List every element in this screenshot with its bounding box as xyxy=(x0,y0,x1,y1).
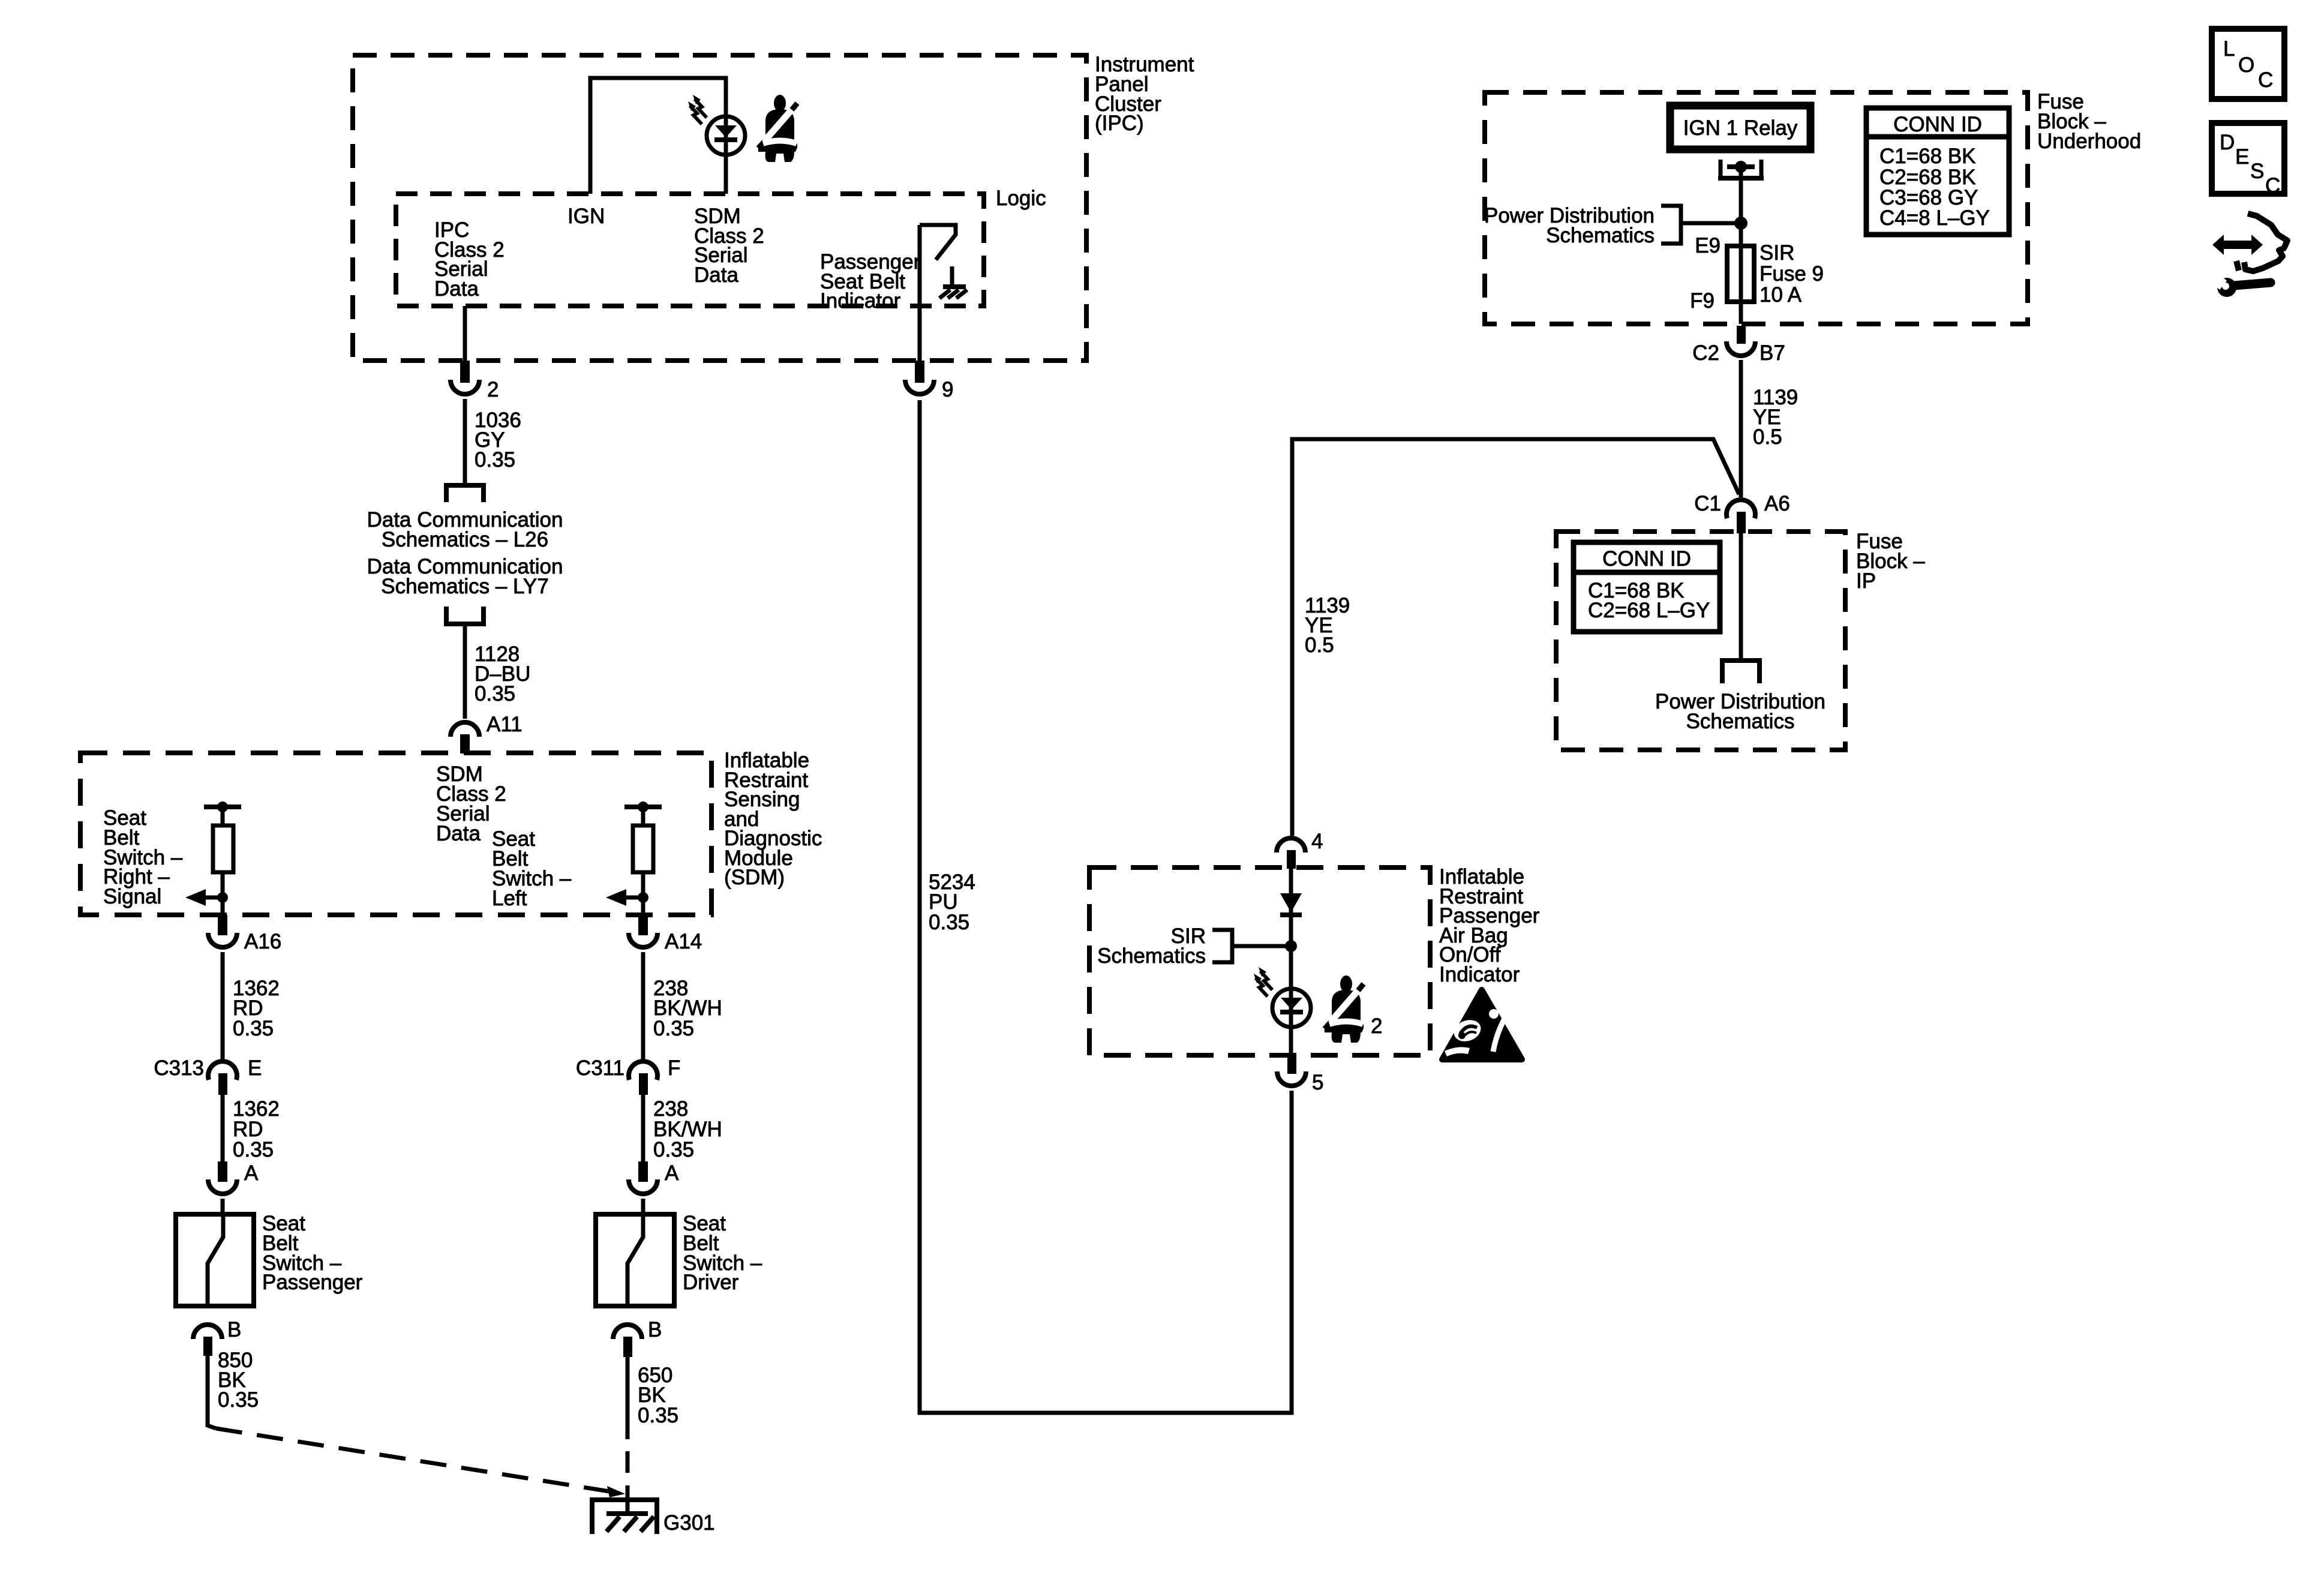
ground symbol inside Logic box xyxy=(950,266,954,287)
off-page fork to Power Distribution Schematics (underhood) xyxy=(1681,221,1741,226)
svg-text:E: E xyxy=(2235,145,2249,169)
off-page fork to SIR Schematics xyxy=(1212,930,1232,962)
box: Inflatable Restraint Passenger Air Bag On/Off Indicator dashed outline xyxy=(1089,867,1430,1055)
svg-text:Passenger: Passenger xyxy=(262,1271,363,1294)
svg-text:A11: A11 xyxy=(487,713,523,736)
LED cathode bar xyxy=(714,137,737,142)
svg-text:A: A xyxy=(665,1161,679,1185)
switch blade (driver) xyxy=(627,1214,643,1306)
LED diode triangle xyxy=(1281,998,1302,1010)
svg-text:SIR: SIR xyxy=(1759,241,1794,265)
box: Fuse Block - IP dashed outline xyxy=(1556,532,1845,750)
svg-text:CONN ID: CONN ID xyxy=(1893,113,1982,136)
svg-text:Driver: Driver xyxy=(683,1271,739,1294)
svg-text:A16: A16 xyxy=(244,930,281,953)
connector pin 5 of indicator xyxy=(1287,1055,1296,1074)
node: junction on indicator wire xyxy=(1285,940,1297,952)
svg-text:C1=68 BK: C1=68 BK xyxy=(1879,145,1976,168)
box: Seat Belt Switch - Passenger xyxy=(176,1214,254,1306)
connector A16 xyxy=(218,915,227,935)
wire 1036 GY 0.35 xyxy=(463,399,467,485)
svg-text:0.35: 0.35 xyxy=(653,1138,694,1161)
node: junction with signal arrow (right) xyxy=(217,892,228,903)
svg-text:C: C xyxy=(2265,174,2280,197)
svg-text:A: A xyxy=(244,1161,259,1185)
wire to resistor xyxy=(641,807,645,825)
pin 9 connector of IPC xyxy=(915,361,924,383)
svg-text:0.35: 0.35 xyxy=(929,911,969,934)
svg-text:Data: Data xyxy=(694,263,738,287)
wire 5234 PU 0.35 from pin 9 down, across and up to indicator pin 5 xyxy=(920,400,1292,1413)
svg-text:A14: A14 xyxy=(665,930,702,953)
box: Inflatable Restraint Sensing and Diagnostic Module (SDM) dashed outline xyxy=(80,753,711,915)
connector C313 cavity E xyxy=(208,1061,237,1080)
LED lamp: passenger air bag indicator bulb xyxy=(1272,989,1311,1027)
wire 650 BK 0.35 xyxy=(626,1357,630,1439)
wire 238 BK/WH 0.35 (upper) xyxy=(641,952,645,1059)
LED diode triangle xyxy=(715,125,737,137)
resistor (left switch sense) xyxy=(633,825,653,872)
wire 1362 RD 0.35 (upper) xyxy=(221,952,225,1059)
svg-text:B7: B7 xyxy=(1759,341,1785,365)
box: Instrument Panel Cluster (IPC) dashed outline xyxy=(353,55,1086,361)
pin 2 connector of IPC xyxy=(460,361,470,383)
connector C1 / A6 xyxy=(1727,500,1755,518)
svg-text:Indicator: Indicator xyxy=(820,289,901,313)
LED emission arrows xyxy=(690,99,707,124)
svg-text:F9: F9 xyxy=(1690,289,1715,313)
svg-text:0.35: 0.35 xyxy=(233,1138,274,1161)
svg-text:Schematics – L26: Schematics – L26 xyxy=(382,528,548,551)
ground G301 symbol xyxy=(592,1500,657,1534)
svg-text:Schematics: Schematics xyxy=(1686,710,1795,733)
box: Seat Belt Switch - Driver xyxy=(596,1214,674,1306)
svg-text:0.35: 0.35 xyxy=(653,1017,694,1040)
svg-text:0.35: 0.35 xyxy=(475,682,515,706)
wire 1139 YE 0.5 (right) xyxy=(1739,360,1743,497)
svg-text:Schematics: Schematics xyxy=(1097,944,1206,968)
svg-text:L: L xyxy=(2223,37,2235,61)
svg-text:B: B xyxy=(648,1318,662,1341)
svg-text:IGN 1 Relay: IGN 1 Relay xyxy=(1683,116,1798,140)
svg-text:Schematics: Schematics xyxy=(1546,224,1655,247)
svg-text:0.35: 0.35 xyxy=(218,1388,259,1412)
svg-text:10 A: 10 A xyxy=(1759,283,1802,307)
svg-text:(SDM): (SDM) xyxy=(724,866,785,889)
node: junction at E9 xyxy=(1734,217,1747,230)
svg-text:D: D xyxy=(2220,131,2235,154)
svg-text:C2: C2 xyxy=(1692,341,1719,365)
svg-text:0.35: 0.35 xyxy=(475,448,515,472)
resistor (right switch sense) xyxy=(213,825,233,872)
svg-text:CONN ID: CONN ID xyxy=(1602,547,1691,571)
LED emission arrows xyxy=(1256,971,1272,996)
svg-text:C: C xyxy=(2258,68,2273,92)
diode inside indicator xyxy=(1280,893,1302,912)
svg-text:Signal: Signal xyxy=(103,885,161,908)
connector A14 xyxy=(638,915,648,935)
fuse: SIR Fuse 9 10 A xyxy=(1727,246,1754,302)
wire resistor to SDM edge xyxy=(221,872,225,915)
wire into passenger switch xyxy=(221,1199,225,1214)
connector B (passenger) xyxy=(193,1325,222,1339)
svg-text:Indicator: Indicator xyxy=(1439,963,1520,986)
wire inside Fuse Block IP xyxy=(1739,532,1743,661)
svg-text:Logic: Logic xyxy=(996,187,1046,210)
svg-text:C311: C311 xyxy=(576,1056,624,1080)
wire into driver switch xyxy=(641,1199,645,1214)
pull-up terminal bar and node (left switch input) xyxy=(624,804,662,809)
wire 1362 RD 0.35 (lower) xyxy=(221,1095,225,1161)
arrow: signal tap to the left (right switch) xyxy=(206,896,223,900)
svg-text:C1: C1 xyxy=(1694,492,1721,515)
wire inside indicator xyxy=(1289,867,1293,1055)
wire relay to junction xyxy=(1739,170,1743,246)
svg-text:C2=68 L–GY: C2=68 L–GY xyxy=(1588,599,1710,622)
svg-text:0.5: 0.5 xyxy=(1305,634,1334,657)
svg-text:IGN: IGN xyxy=(568,205,605,228)
svg-text:Left: Left xyxy=(492,887,527,910)
wire to resistor xyxy=(221,807,225,825)
svg-text:4: 4 xyxy=(1311,830,1323,853)
icon: seat belt person 2 xyxy=(1325,975,1364,1043)
switch blade (passenger) xyxy=(208,1214,223,1306)
off-page fork from Data Communication Schematics (bottom) xyxy=(446,607,484,624)
svg-text:Data: Data xyxy=(434,277,479,301)
switch: passenger seat belt indicator driver inside Logic xyxy=(920,225,956,260)
table: CONN ID (underhood) xyxy=(1866,108,2009,235)
svg-text:C313: C313 xyxy=(154,1056,204,1080)
svg-text:E: E xyxy=(248,1056,262,1080)
wire resistor to SDM edge xyxy=(641,872,645,915)
relay: IGN 1 Relay bold box xyxy=(1670,106,1810,149)
svg-text:G301: G301 xyxy=(663,1511,715,1535)
svg-text:2: 2 xyxy=(1371,1014,1382,1038)
dashed ground lead segments (driver) xyxy=(626,1451,630,1514)
dashed splice wire to G301 xyxy=(208,1422,216,1428)
svg-text:Data: Data xyxy=(436,822,481,845)
LED cathode bar xyxy=(1280,1010,1303,1014)
node: junction with signal arrow (left) xyxy=(638,892,648,903)
pull-up terminal bar and node (right switch input) xyxy=(204,804,241,809)
box: Fuse Block - Underhood dashed outline xyxy=(1485,92,2028,324)
connector A11 into SDM xyxy=(451,722,479,737)
icon: DESC box xyxy=(2212,123,2284,194)
svg-text:(IPC): (IPC) xyxy=(1095,112,1144,135)
LED lamp: seat belt indicator bulb circle xyxy=(707,116,745,155)
connector pin 4 of indicator xyxy=(1277,838,1305,852)
svg-text:O: O xyxy=(2238,53,2254,77)
svg-text:9: 9 xyxy=(942,378,953,401)
svg-text:0.35: 0.35 xyxy=(233,1017,274,1040)
svg-text:Schematics – LY7: Schematics – LY7 xyxy=(381,575,549,598)
table: CONN ID (IP) xyxy=(1574,542,1720,632)
wire 850 BK 0.35 xyxy=(206,1356,210,1424)
icon: air bag warning triangle xyxy=(1442,990,1522,1059)
svg-text:2: 2 xyxy=(487,378,499,401)
svg-text:F: F xyxy=(668,1056,680,1080)
connector C311 cavity F xyxy=(629,1061,657,1080)
off-page fork to Power Distribution Schematics (IP) xyxy=(1722,661,1759,683)
wire: branch to left column for indicator xyxy=(1292,439,1739,836)
connector B (driver) xyxy=(613,1325,642,1339)
connector A (driver switch) xyxy=(638,1161,648,1182)
wire 1128 D-BU 0.35 xyxy=(463,624,467,719)
svg-text:IP: IP xyxy=(1856,569,1876,593)
svg-text:A6: A6 xyxy=(1764,492,1790,515)
wire 238 BK/WH 0.35 (lower) xyxy=(641,1095,645,1161)
svg-text:0.35: 0.35 xyxy=(638,1404,678,1427)
svg-text:Fuse 9: Fuse 9 xyxy=(1759,262,1824,286)
svg-text:Underhood: Underhood xyxy=(2037,130,2141,153)
wire: from IPC Data text down to pin 2 xyxy=(463,306,467,361)
connector A (passenger switch) xyxy=(218,1161,227,1182)
connector C2 / B7 xyxy=(1737,326,1746,344)
box: Logic dashed outline inside IPC xyxy=(396,194,984,306)
svg-text:S: S xyxy=(2250,160,2264,183)
icon: LOC box xyxy=(2212,29,2284,99)
arrow: signal tap to the left (left switch) xyxy=(626,896,643,900)
off-page fork to Data Communication Schematics (top) xyxy=(446,485,484,502)
svg-text:B: B xyxy=(227,1318,241,1341)
svg-text:C4=8 L–GY: C4=8 L–GY xyxy=(1879,206,1990,230)
icon: service information mouse with arrows and wrench xyxy=(2208,214,2287,297)
wire: from switch down to pin 9 xyxy=(918,225,922,361)
svg-text:E9: E9 xyxy=(1695,234,1721,257)
icon: seat belt person (IPC indicator) xyxy=(758,95,797,162)
relay output terminal bracket xyxy=(1721,160,1761,178)
wire: IGN feed from Logic box up and over to LED xyxy=(590,78,726,194)
svg-text:0.5: 0.5 xyxy=(1753,425,1782,449)
svg-text:5: 5 xyxy=(1312,1071,1323,1094)
